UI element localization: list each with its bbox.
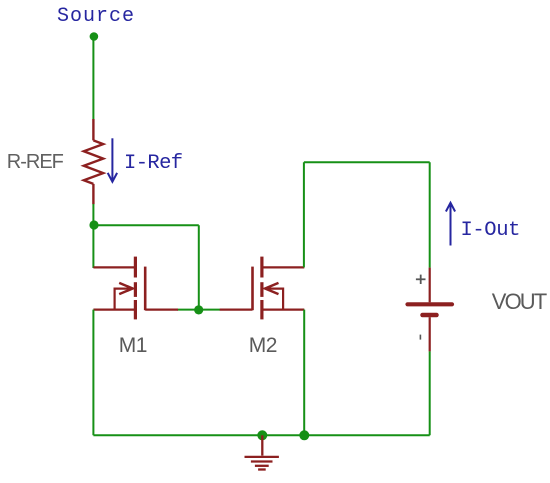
wire source to resistor [92, 40, 94, 120]
wire node A to gates (horizontal) [93, 224, 198, 226]
ground [245, 435, 279, 469]
label M1 [119, 334, 147, 357]
svg-text:R-REF: R-REF [7, 151, 64, 173]
wire M1 source down [92, 310, 94, 436]
wire bottom rail [93, 434, 429, 436]
svg-text:M2: M2 [249, 334, 277, 357]
wire gates vertical drop [198, 225, 200, 309]
wire top right horizontal [304, 161, 430, 163]
node Source label [57, 5, 135, 28]
transistor M1 [93, 257, 178, 320]
transistor M2 [220, 257, 305, 320]
battery V1 [408, 268, 453, 352]
current arrow I-Ref [108, 138, 117, 181]
label I-Ref [124, 152, 183, 175]
node M2-source junction dot [299, 430, 309, 440]
wire resistor to node A [92, 204, 94, 224]
label M2 [249, 334, 277, 357]
svg-text:M1: M1 [119, 334, 147, 357]
svg-text:Source: Source [57, 5, 135, 28]
wire M2 source down [303, 310, 305, 436]
node Source junction dot [90, 32, 99, 41]
wire battery to bottom rail [429, 351, 431, 435]
wire right vertical to battery [429, 162, 431, 267]
svg-text:VOUT: VOUT [492, 289, 547, 314]
battery minus tick [419, 335, 421, 340]
svg-text:I-Out: I-Out [461, 219, 521, 242]
battery VOUT plus sign [416, 275, 426, 284]
wire M2 drain up [303, 162, 305, 267]
svg-text:I-Ref: I-Ref [124, 152, 183, 175]
label VOUT [492, 289, 547, 314]
wire between gate stubs [177, 309, 220, 311]
current arrow I-Out [446, 203, 455, 246]
label I-Out [461, 219, 521, 242]
node A junction dot [89, 220, 98, 229]
node gates junction dot [194, 305, 203, 314]
resistor R-REF [84, 119, 103, 204]
node ground junction dot [257, 430, 267, 440]
wire node A down to M1 drain [92, 224, 94, 268]
label R-REF [7, 151, 64, 173]
